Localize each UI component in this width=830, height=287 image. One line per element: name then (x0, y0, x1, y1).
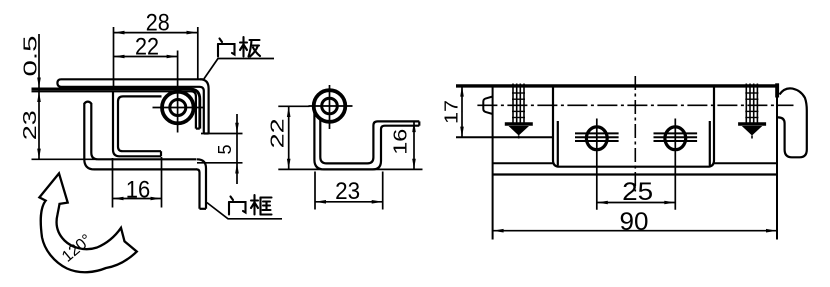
dimension 0.5 arrows (37, 78, 41, 89)
svg-text:23: 23 (335, 178, 360, 205)
dimension 0.5/23 vertical line (38, 34, 40, 159)
mid dimension 23 extension lines (314, 172, 316, 210)
mid bottom extension line both sides (278, 168, 422, 170)
mid dimension 23 line (315, 201, 383, 203)
hook catch (777, 88, 807, 157)
skirt bottom edge (493, 173, 777, 175)
dimension 16 arrows (113, 197, 124, 201)
plate right edge and 90 extension (776, 84, 778, 240)
dimension 23 bottom arrow (37, 149, 41, 160)
dimension 22 line (114, 56, 178, 58)
spring leg top cap (84, 102, 91, 104)
door panel flange end cap (204, 132, 209, 134)
rivet 2 circle (665, 127, 686, 150)
plate top edge (456, 84, 777, 87)
mid rivet crosshair vertical (329, 85, 331, 129)
dimension 16 extension lines (112, 158, 114, 208)
latch right flange end cap (196, 128, 200, 130)
door panel label text (men ban) (218, 37, 260, 57)
mid rivet crosshair horizontal (309, 105, 353, 107)
mid dimension 23 arrows (315, 200, 326, 204)
mid dimension 22 line (288, 106, 290, 169)
mid rivet outer ring (314, 90, 346, 122)
rivet 2 vertical axis / 25 extension (674, 119, 676, 210)
inner body right sheet edge (709, 121, 711, 166)
door frame label text (men kuang) (229, 195, 272, 215)
left edge pin tab (483, 97, 492, 115)
left screw tip stub (518, 136, 520, 139)
plate left edge and 90 extension (492, 85, 494, 240)
mid dimension 16 line (413, 121, 415, 169)
dimension 90 arrows (493, 229, 504, 233)
svg-text:23: 23 (20, 110, 40, 140)
svg-text:0.5: 0.5 (21, 36, 41, 77)
door panel sheet (57, 79, 203, 87)
dimension 25 arrows (597, 201, 608, 205)
svg-text:16: 16 (126, 177, 151, 204)
dimension 5 arrows (235, 123, 239, 134)
mid dimension 22 top tick (278, 105, 309, 107)
dimension 5 upper tick (201, 133, 243, 135)
door frame flange outer (197, 159, 206, 209)
spring leg outer line with bottom bend (84, 103, 197, 169)
mid dimension 22 arrows (287, 106, 291, 117)
left screw thread ticks (512, 93, 525, 118)
channel bottom end cap (160, 151, 162, 156)
right screw tip stub (751, 136, 753, 139)
horizontal center line (dash-dot) (477, 104, 793, 106)
dimension 17 line (461, 86, 463, 137)
rivet 1 vertical axis / 25 extension (596, 119, 598, 210)
dimension 5 lower tick (197, 162, 243, 164)
extension line bottom of 23 (32, 158, 98, 160)
left screw washer bar (505, 122, 533, 125)
mid rivet inner ring (322, 98, 338, 114)
svg-text:25: 25 (622, 178, 653, 206)
channel inner top edge (123, 95, 162, 97)
rivet 1 circle (586, 127, 607, 150)
dimension 22 arrows (114, 55, 125, 59)
mid U channel inner surface (320, 119, 419, 164)
extension line right of 28 (197, 27, 199, 79)
mid dimension 16 arrows (412, 121, 416, 132)
dimension 5 vertical line (236, 114, 238, 184)
right screw thread ticks (745, 93, 758, 118)
door frame flange bottom cap (200, 208, 207, 210)
svg-text:22: 22 (135, 34, 159, 61)
vertical center line (dash-dot) (634, 76, 636, 192)
svg-text:28: 28 (146, 9, 170, 36)
right edge tab bar (775, 83, 779, 97)
latch top flange outer surface (32, 89, 200, 129)
svg-text:16: 16 (391, 129, 411, 155)
inner body left sheet edge (557, 121, 559, 166)
door frame label leader (207, 203, 282, 219)
skirt fold line left segment (493, 162, 553, 164)
mid flange end cap (418, 121, 420, 125)
rivet 2 coil lines (654, 133, 698, 141)
right screw tip triangle (742, 126, 763, 136)
channel inner wall, top edge and bottom (118, 96, 161, 151)
120 degree rotation arrow (39, 173, 136, 272)
svg-text:22: 22 (268, 118, 288, 148)
skirt fold line right segment (714, 162, 777, 164)
rivet 1 coil lines (575, 133, 619, 141)
svg-text:17: 17 (442, 100, 462, 124)
door panel right flange outer (200, 79, 209, 133)
dimension 16 line (113, 198, 162, 200)
left screw shaft lines (513, 84, 524, 123)
dimension 28 arrows (114, 31, 125, 35)
rivet crosshair horizontal (153, 107, 204, 109)
latch top flange inner surface (32, 91, 196, 128)
rivet outer ring (162, 92, 194, 124)
dimension 28 line (114, 32, 198, 34)
extension line right of 22 through rivet (177, 51, 179, 133)
right screw washer bar (738, 122, 766, 125)
dimension 90 line (493, 230, 777, 232)
door panel right flange inner (200, 87, 204, 134)
dimension 17 arrows (460, 86, 464, 97)
right screw shaft lines (746, 84, 757, 123)
door frame flange inner (197, 169, 200, 208)
extension line left of 28/22 (113, 27, 115, 89)
left wing bottom edge with 17 extension (456, 136, 553, 138)
rivet inner ring (170, 100, 186, 116)
dimension 25 line (597, 202, 676, 204)
svg-text:5: 5 (215, 144, 235, 154)
channel outer wall and bottom (113, 91, 161, 157)
spring leg inner line with bottom bend (91, 103, 196, 159)
left screw tip triangle (509, 126, 530, 136)
svg-text:90: 90 (620, 208, 649, 236)
inner body outline (553, 87, 714, 167)
mid U channel outer surface (314, 106, 419, 169)
door panel label leader (204, 59, 275, 80)
